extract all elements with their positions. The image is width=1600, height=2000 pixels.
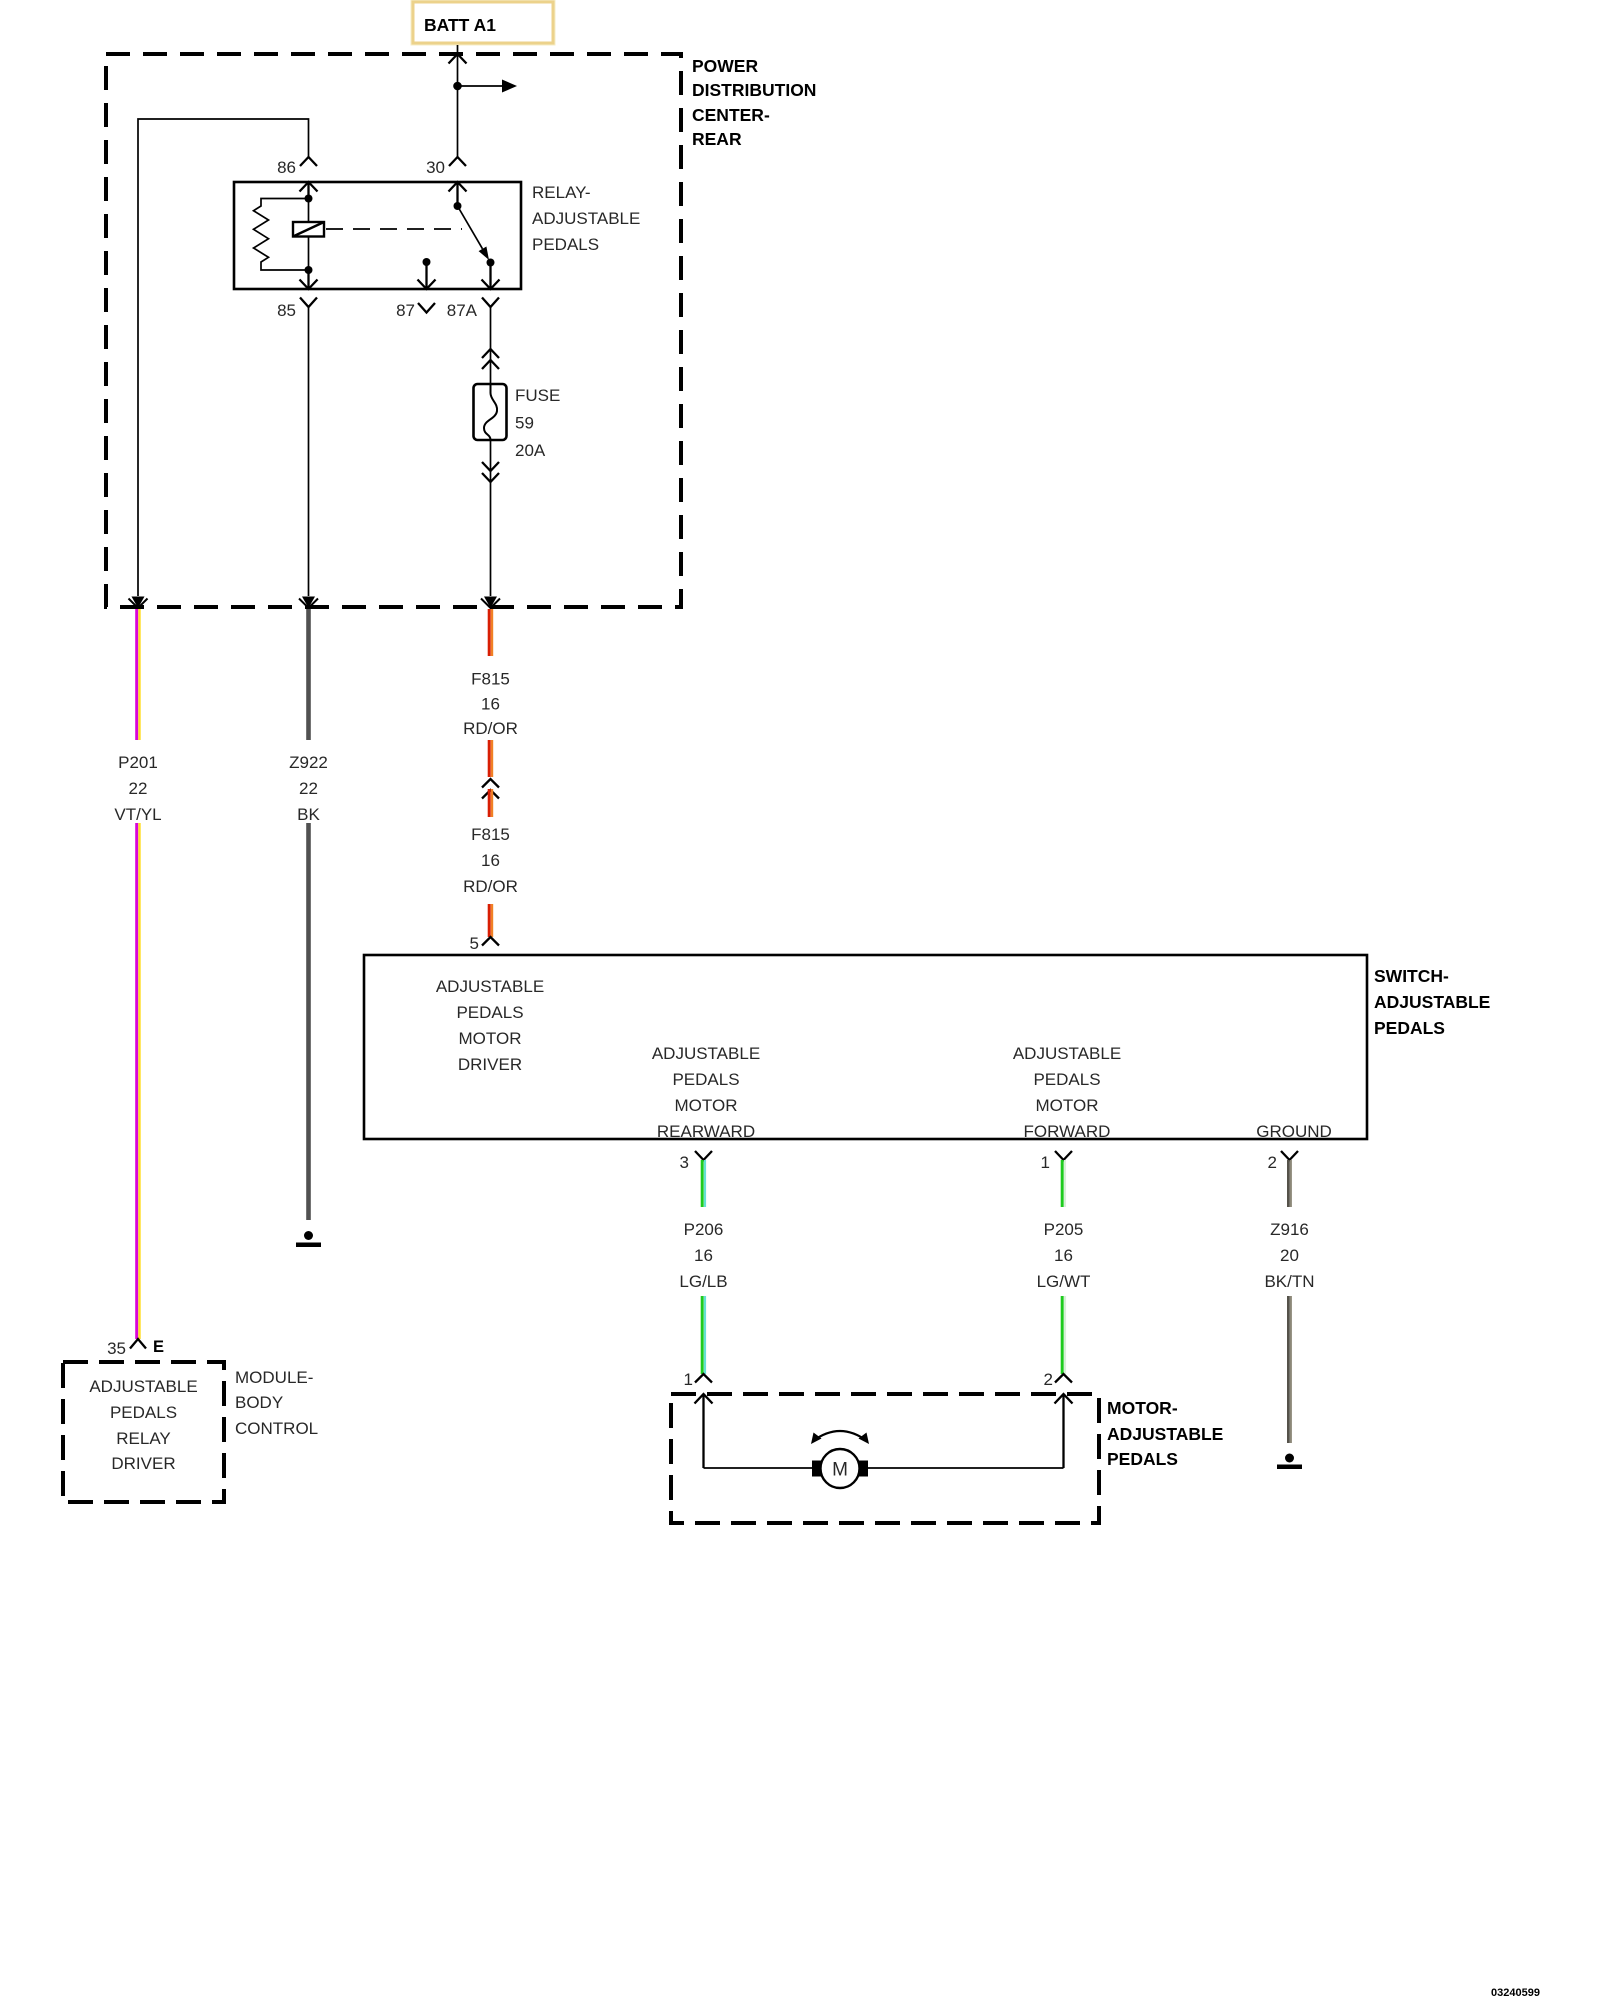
svg-text:BODY: BODY	[235, 1393, 283, 1412]
wire P201 connector at BCM pin 35	[130, 1339, 146, 1349]
svg-text:20: 20	[1280, 1246, 1299, 1265]
motor MOTOR-ADJUSTABLE PEDALS dashed box	[671, 1394, 1099, 1523]
svg-text:20A: 20A	[515, 441, 546, 460]
wire P201 22 VT/YL (segment 1)	[137, 609, 140, 740]
relay movable contact node (pin 30)	[454, 202, 462, 210]
svg-text:ADJUSTABLE: ADJUSTABLE	[652, 1044, 760, 1063]
PDC exit arrow (to F815)	[481, 597, 500, 609]
battery feed BATT A1 box	[411, 0, 555, 45]
svg-text:MOTOR-: MOTOR-	[1107, 1398, 1178, 1418]
svg-text:16: 16	[481, 695, 500, 714]
svg-text:F815: F815	[471, 825, 510, 844]
wire fuse to PDC border	[490, 440, 492, 596]
svg-text:LG/WT: LG/WT	[1037, 1272, 1091, 1291]
svg-text:1: 1	[684, 1370, 693, 1389]
connector at switch pin 1	[1055, 1151, 1072, 1160]
svg-text:MOTOR: MOTOR	[675, 1096, 738, 1115]
svg-text:FUSE: FUSE	[515, 386, 560, 405]
connector at relay pin 86	[300, 157, 317, 166]
svg-text:M: M	[832, 1460, 848, 1481]
svg-text:E: E	[153, 1338, 164, 1356]
svg-text:35: 35	[107, 1339, 126, 1358]
svg-text:22: 22	[299, 779, 318, 798]
svg-text:MOTOR: MOTOR	[459, 1029, 522, 1048]
power distribution center rear dashed box	[106, 54, 681, 607]
wire P205 16 LG/WT (segment 2)	[1062, 1296, 1065, 1374]
svg-text:DISTRIBUTION: DISTRIBUTION	[692, 80, 816, 100]
relay pin 87A edge arrow	[482, 263, 500, 290]
svg-text:BK: BK	[297, 805, 320, 824]
connector at relay pin 87 (unused)	[418, 303, 435, 313]
svg-text:PEDALS: PEDALS	[110, 1403, 177, 1422]
relay RELAY-ADJUSTABLE PEDALS box	[234, 182, 521, 289]
svg-text:REARWARD: REARWARD	[657, 1122, 755, 1141]
in-line connector (double chevron) above fuse	[482, 349, 499, 369]
svg-text:P206: P206	[684, 1220, 724, 1239]
motor pin 1 edge arrow	[695, 1394, 713, 1468]
svg-text:MODULE-: MODULE-	[235, 1368, 313, 1387]
wire Z916 20 BK/TN (segment 1)	[1288, 1160, 1291, 1207]
connector at relay pin 30	[449, 157, 466, 166]
svg-text:Z916: Z916	[1270, 1220, 1309, 1239]
wire F815 16 RD/OR (segment 2)	[489, 740, 492, 777]
svg-text:RELAY: RELAY	[116, 1429, 171, 1448]
connector at switch pin 3	[695, 1151, 712, 1160]
svg-text:CONTROL: CONTROL	[235, 1419, 318, 1438]
relay coil symbol	[293, 222, 324, 237]
connector at relay pin 87A	[482, 298, 499, 308]
wire P206 16 LG/LB (segment 1)	[702, 1160, 705, 1207]
PDC exit arrow (to Z922)	[299, 597, 318, 609]
motor M	[812, 1449, 868, 1488]
wire pin 85 down to PDC border	[308, 307, 310, 596]
svg-text:P201: P201	[118, 753, 158, 772]
svg-text:PEDALS: PEDALS	[672, 1070, 739, 1089]
svg-text:PEDALS: PEDALS	[1107, 1449, 1178, 1469]
svg-text:REAR: REAR	[692, 129, 742, 149]
wire F815 16 RD/OR (segment 4)	[489, 904, 492, 937]
svg-text:DRIVER: DRIVER	[111, 1454, 175, 1473]
coil-contact mechanical link (dashed)	[326, 228, 462, 230]
svg-text:16: 16	[1054, 1246, 1073, 1265]
in-line connector (double chevron) below fuse	[482, 462, 499, 482]
wire P205 16 LG/WT (segment 1)	[1062, 1160, 1065, 1207]
svg-text:85: 85	[277, 301, 296, 320]
svg-text:03240599: 03240599	[1491, 1987, 1540, 1999]
svg-text:22: 22	[129, 779, 148, 798]
svg-text:ADJUSTABLE: ADJUSTABLE	[436, 977, 544, 996]
svg-text:FORWARD: FORWARD	[1024, 1122, 1111, 1141]
svg-text:VT/YL: VT/YL	[114, 805, 161, 824]
svg-text:87A: 87A	[447, 301, 478, 320]
relay pin 87 edge arrow	[418, 262, 436, 289]
svg-text:86: 86	[277, 158, 296, 177]
connector at motor pin 2	[1055, 1374, 1072, 1383]
svg-text:PEDALS: PEDALS	[532, 235, 599, 254]
wire F815 16 RD/OR (segment 1)	[489, 609, 492, 656]
fuse 59 20A	[474, 384, 507, 440]
svg-text:ADJUSTABLE: ADJUSTABLE	[89, 1377, 197, 1396]
ground G916	[1277, 1454, 1302, 1470]
node pin 87 contact	[423, 258, 431, 266]
in-line connector C112 (double chevron)	[482, 779, 499, 799]
svg-text:87: 87	[396, 301, 415, 320]
resistor (relay suppression)	[254, 199, 309, 271]
wire Z922 22 BK (segment 1)	[306, 609, 311, 740]
relay pin 86 edge arrow	[300, 182, 318, 199]
svg-text:ADJUSTABLE: ADJUSTABLE	[1374, 992, 1490, 1012]
svg-text:RD/OR: RD/OR	[463, 719, 518, 738]
module ADJUSTABLE PEDALS RELAY DRIVER dashed box	[63, 1362, 224, 1502]
svg-text:GROUND: GROUND	[1256, 1122, 1332, 1141]
relay switch arm with arrowhead	[458, 206, 483, 249]
connector at switch pin 2	[1281, 1151, 1298, 1160]
svg-text:Z922: Z922	[289, 753, 328, 772]
svg-text:5: 5	[470, 934, 479, 953]
switch SWITCH-ADJUSTABLE PEDALS box	[364, 955, 1367, 1139]
wire relay pin 86 to module driver (black segment inside PDC)	[138, 119, 309, 596]
svg-text:PEDALS: PEDALS	[456, 1003, 523, 1022]
svg-text:59: 59	[515, 414, 534, 433]
node coil top	[305, 195, 313, 203]
wire F815 16 RD/OR (segment 3)	[489, 789, 492, 817]
svg-text:RD/OR: RD/OR	[463, 877, 518, 896]
wire pin 87A down to fuse	[490, 307, 492, 384]
svg-text:DRIVER: DRIVER	[458, 1055, 522, 1074]
svg-text:2: 2	[1044, 1370, 1053, 1389]
svg-text:16: 16	[481, 851, 500, 870]
svg-text:30: 30	[426, 158, 445, 177]
svg-text:ADJUSTABLE: ADJUSTABLE	[1013, 1044, 1121, 1063]
motor pin 2 edge arrow	[1055, 1394, 1073, 1468]
svg-text:POWER: POWER	[692, 56, 758, 76]
connector at relay pin 85	[300, 298, 317, 308]
node coil bottom	[305, 266, 313, 274]
svg-text:F815: F815	[471, 670, 510, 689]
connector at switch pin 5	[482, 937, 499, 946]
arrow entering PDC at top border	[449, 54, 467, 64]
svg-text:CENTER-: CENTER-	[692, 105, 770, 125]
relay pin 85 edge arrow	[300, 270, 318, 289]
connector at motor pin 1	[695, 1374, 712, 1383]
svg-text:BATT A1: BATT A1	[424, 15, 496, 35]
wire BATT A1 to relay pin 30	[458, 45, 504, 157]
relay coil branch line 86-85	[308, 199, 310, 271]
svg-text:ADJUSTABLE: ADJUSTABLE	[1107, 1424, 1223, 1444]
svg-text:SWITCH-: SWITCH-	[1374, 966, 1449, 986]
svg-text:3: 3	[680, 1153, 689, 1172]
svg-text:LG/LB: LG/LB	[679, 1272, 727, 1291]
svg-text:PEDALS: PEDALS	[1033, 1070, 1100, 1089]
svg-text:MOTOR: MOTOR	[1036, 1096, 1099, 1115]
svg-text:2: 2	[1268, 1153, 1277, 1172]
svg-text:16: 16	[694, 1246, 713, 1265]
wire Z916 20 BK/TN (segment 2)	[1288, 1296, 1291, 1443]
svg-text:RELAY-: RELAY-	[532, 183, 591, 202]
svg-text:1: 1	[1041, 1153, 1050, 1172]
relay pin 30 edge arrow	[449, 182, 467, 206]
svg-text:BK/TN: BK/TN	[1264, 1272, 1314, 1291]
motor rotation arrow	[811, 1431, 869, 1444]
ground G922	[296, 1231, 321, 1247]
bus continuation arrow (right)	[502, 80, 517, 93]
wire Z922 22 BK (segment 2)	[306, 823, 311, 1220]
PDC exit arrow (to P201)	[129, 597, 148, 609]
node pin 87A contact	[487, 259, 495, 267]
motor internal wire	[704, 1467, 1064, 1469]
wire P206 16 LG/LB (segment 2)	[702, 1296, 705, 1374]
svg-text:P205: P205	[1044, 1220, 1084, 1239]
svg-text:PEDALS: PEDALS	[1374, 1018, 1445, 1038]
wire P201 22 VT/YL (segment 2)	[137, 823, 140, 1339]
junction node at battery bus	[453, 82, 462, 91]
svg-text:ADJUSTABLE: ADJUSTABLE	[532, 209, 640, 228]
